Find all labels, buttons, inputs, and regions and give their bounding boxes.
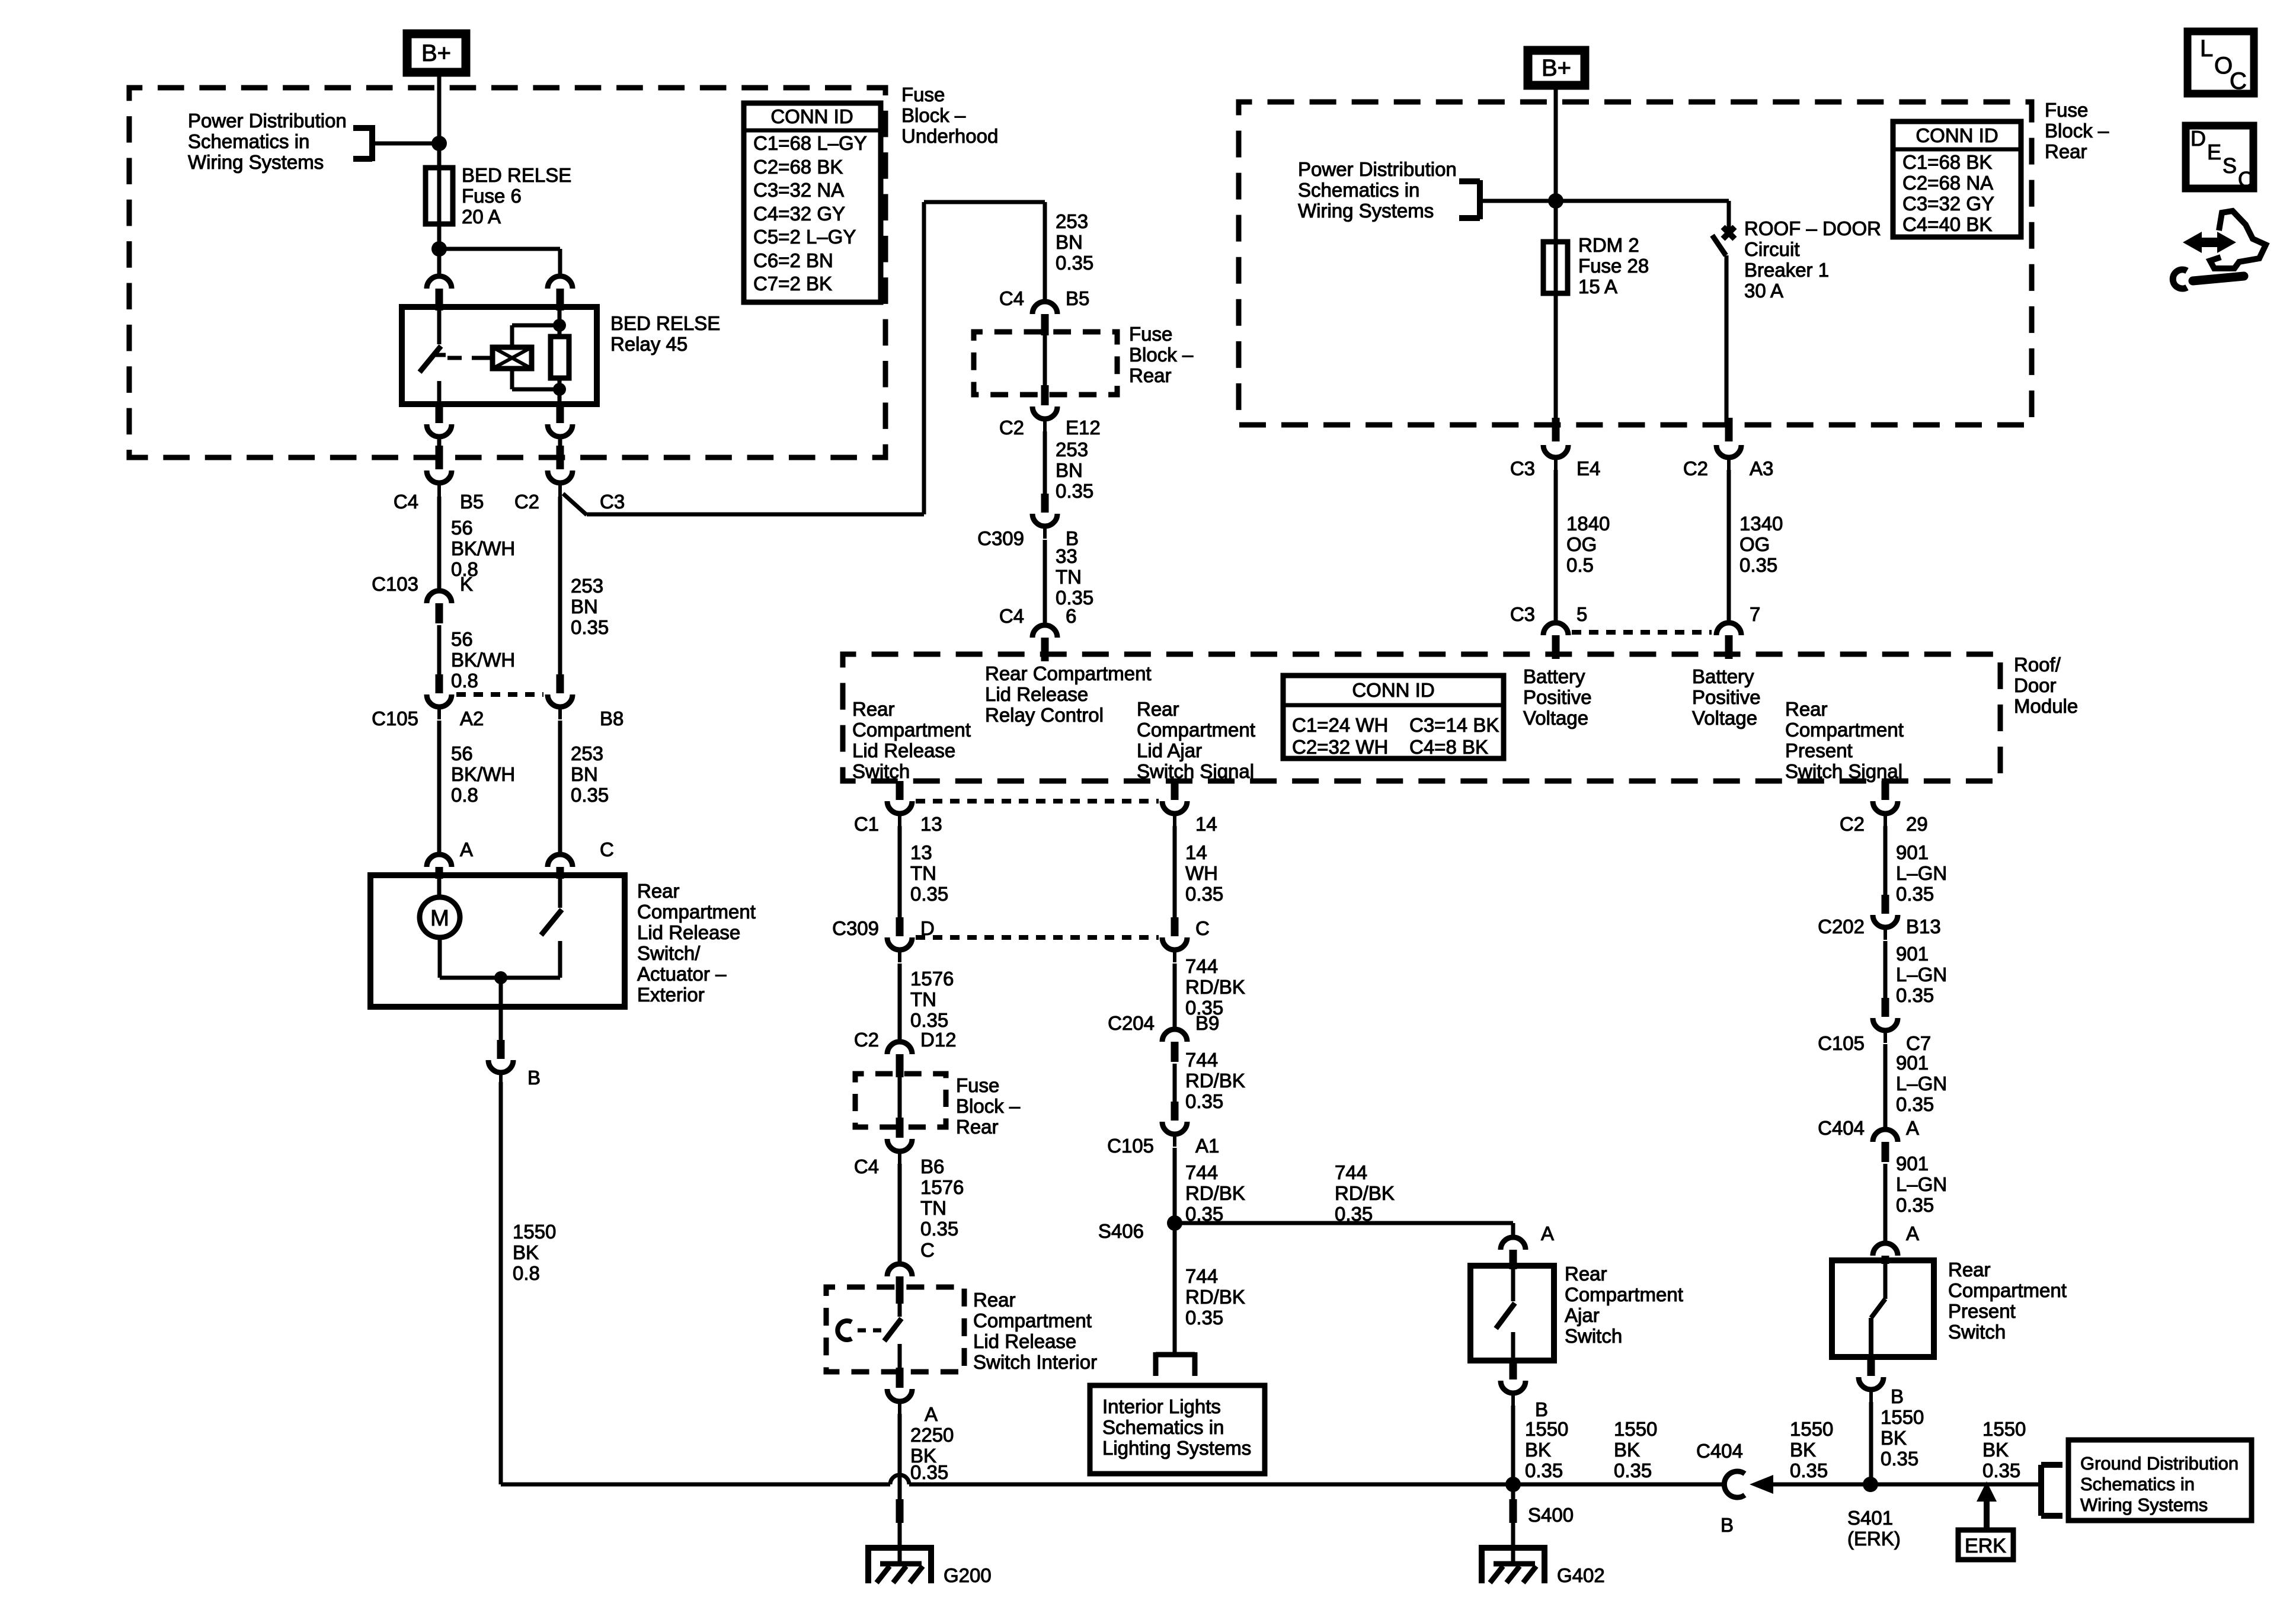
relay coil bottom rail	[512, 388, 559, 392]
label circuit 253 BN 0.35 (4)	[1056, 438, 1093, 502]
wire ajar to S400	[1511, 1406, 1515, 1484]
svg-text:Compartment: Compartment	[973, 1310, 1092, 1331]
power symbol B+ (battery feed, underhood)	[407, 34, 466, 72]
wire S406 to ajar switch	[1175, 1223, 1513, 1235]
label circuit 56 BK/WH 0.8 (2)	[451, 628, 515, 692]
svg-text:C2: C2	[854, 1029, 879, 1051]
svg-text:1340: 1340	[1739, 513, 1783, 534]
svg-text:C3=32 GY: C3=32 GY	[1902, 193, 1994, 215]
label circuit 2250 BK 0.35	[910, 1424, 954, 1483]
connector relay pin 1 (switch)	[427, 276, 452, 311]
svg-text:D: D	[920, 917, 935, 939]
label C4 (B6)	[854, 1156, 879, 1177]
wire 253 BN routing to fuse block rear	[587, 202, 1045, 514]
connector C105 terminal B8 side	[548, 497, 573, 719]
svg-text:B5: B5	[1066, 287, 1089, 309]
svg-text:1550: 1550	[513, 1221, 556, 1243]
wire 253 BN drop	[1043, 202, 1047, 300]
svg-text:CONN ID: CONN ID	[770, 105, 853, 127]
svg-text:TN: TN	[1056, 566, 1082, 588]
connector relay output (coil side)	[548, 404, 573, 449]
wire 14 WH segment	[1173, 826, 1177, 917]
wire 1576 TN segment	[898, 964, 902, 1040]
dashed box Fuse Block - Rear (small 2)	[855, 1074, 946, 1127]
label B (C404 bus)	[1721, 1514, 1734, 1536]
svg-text:(ERK): (ERK)	[1847, 1528, 1901, 1550]
connector B (present switch)	[1859, 1357, 1884, 1403]
connector C2 terminal D12	[887, 1042, 912, 1077]
svg-text:56: 56	[451, 628, 473, 650]
label circuit 901 L-GN 0.35 (2)	[1896, 943, 1947, 1006]
svg-text:BK: BK	[1790, 1439, 1816, 1461]
svg-text:C7: C7	[1906, 1032, 1931, 1054]
label C4 (module)	[999, 605, 1024, 627]
label C2 (A3)	[1683, 457, 1708, 479]
svg-text:Rear: Rear	[1565, 1263, 1607, 1285]
svg-text:BK: BK	[1982, 1439, 2009, 1461]
svg-text:0.35: 0.35	[1335, 1203, 1373, 1225]
label circuit 744 RD/BK 0.35 (branch)	[1335, 1161, 1395, 1225]
connector C2 terminal 29	[1873, 781, 1898, 826]
label C105 (A1)	[1107, 1135, 1154, 1157]
label Rear Compartment Present Switch	[1948, 1259, 2067, 1343]
svg-text:RD/BK: RD/BK	[1185, 976, 1245, 998]
interior switch contact	[837, 1287, 901, 1372]
svg-text:S401: S401	[1847, 1507, 1893, 1529]
svg-text:29: 29	[1906, 813, 1928, 835]
svg-text:BN: BN	[571, 763, 598, 785]
svg-text:1576: 1576	[910, 968, 954, 990]
wire 901 L-GN segment	[1884, 826, 1888, 895]
svg-text:S400: S400	[1528, 1504, 1574, 1526]
label circuit 744 RD/BK 0.35 (3)	[1185, 1161, 1245, 1225]
table CONN ID (fuse block underhood)	[744, 103, 881, 302]
node coil/resistor bottom	[553, 383, 566, 396]
svg-text:Fuse: Fuse	[956, 1074, 999, 1096]
label C3 (E4)	[1510, 457, 1535, 479]
label E4	[1576, 457, 1600, 479]
connector C1 terminal 13	[887, 781, 912, 826]
svg-text:0.35: 0.35	[910, 1461, 948, 1483]
off-page bracket to ground distribution	[2041, 1465, 2062, 1516]
svg-text:Lid Release: Lid Release	[985, 683, 1088, 705]
svg-text:C2=68 NA: C2=68 NA	[1902, 172, 1993, 194]
svg-text:Relay Control: Relay Control	[985, 704, 1104, 726]
svg-text:0.35: 0.35	[1185, 883, 1223, 905]
wire C3 diagonal branch	[563, 494, 587, 515]
table CONN ID (fuse block rear)	[1893, 121, 2021, 237]
label C2 (D12)	[854, 1029, 879, 1051]
label circuit 744 RD/BK 0.35 (1)	[1185, 955, 1245, 1019]
svg-text:L–GN: L–GN	[1896, 862, 1947, 884]
label C (C309)	[1195, 917, 1210, 939]
wire node to fuse 28	[1554, 201, 1558, 242]
svg-text:C3: C3	[1510, 603, 1535, 625]
svg-text:C3=14 BK: C3=14 BK	[1409, 714, 1499, 736]
dashed box Fuse Block - Rear (big)	[1239, 102, 2032, 425]
label C309 (B)	[977, 527, 1024, 549]
label C204	[1108, 1012, 1155, 1034]
wire 1576 TN segment 2	[898, 1164, 902, 1262]
svg-text:Rear: Rear	[852, 698, 895, 720]
svg-text:Switch: Switch	[1948, 1321, 2006, 1343]
wire actuator output	[499, 978, 503, 1007]
svg-text:BK/WH: BK/WH	[451, 537, 515, 559]
svg-text:BN: BN	[1056, 459, 1083, 481]
svg-text:C2: C2	[1683, 457, 1708, 479]
connector C2 terminal A3	[1716, 418, 1741, 471]
label C3 (5)	[1510, 603, 1535, 625]
svg-text:Wiring Systems: Wiring Systems	[188, 151, 324, 173]
connector C2 terminal E12	[1032, 385, 1057, 433]
label Rear Compartment Lid Release Switch/Actuator - Exterior	[637, 880, 756, 1006]
label S400	[1528, 1504, 1574, 1526]
svg-text:L–GN: L–GN	[1896, 1173, 1947, 1195]
svg-text:C3: C3	[1510, 457, 1535, 479]
connector C103 terminal K	[427, 591, 452, 623]
label 29	[1906, 813, 1928, 835]
connector C309 terminal B	[1032, 494, 1057, 539]
label BED RELSE Fuse 6 20 A	[462, 164, 571, 228]
svg-text:0.35: 0.35	[910, 883, 948, 905]
svg-text:C202: C202	[1818, 916, 1865, 937]
connector C4 terminal B6	[887, 1118, 912, 1165]
svg-text:B: B	[1535, 1398, 1548, 1420]
svg-text:C4: C4	[854, 1156, 879, 1177]
label 5	[1576, 603, 1587, 625]
svg-text:Positive: Positive	[1523, 686, 1592, 708]
label circuit 1576 TN 0.35 C	[920, 1176, 964, 1261]
svg-text:Schematics in: Schematics in	[1298, 179, 1419, 201]
actuator switch contact	[541, 879, 562, 978]
svg-text:0.8: 0.8	[451, 670, 478, 692]
label circuit 33 TN 0.35	[1056, 545, 1093, 609]
label 6	[1066, 605, 1076, 627]
svg-text:C2: C2	[514, 491, 539, 513]
motor M symbol	[420, 879, 460, 978]
label B5 (rear)	[1066, 287, 1089, 309]
svg-text:Rear: Rear	[956, 1116, 999, 1138]
svg-text:0.35: 0.35	[910, 1009, 948, 1031]
relay coil (crossed box)	[485, 325, 532, 389]
svg-text:0.35: 0.35	[1739, 554, 1777, 576]
node junction rear feed	[1548, 193, 1563, 209]
label S406	[1098, 1220, 1144, 1242]
svg-text:BK: BK	[1881, 1427, 1907, 1449]
label K	[460, 573, 473, 595]
label circuit 14 WH 0.35	[1185, 841, 1223, 905]
wire present to S401	[1869, 1402, 1873, 1484]
svg-text:K: K	[460, 573, 473, 595]
svg-text:TN: TN	[910, 988, 936, 1010]
svg-text:Wiring Systems: Wiring Systems	[2080, 1494, 2208, 1515]
svg-text:Lid Release: Lid Release	[852, 740, 955, 761]
svg-text:Switch: Switch	[852, 760, 910, 782]
svg-text:Voltage: Voltage	[1692, 707, 1757, 729]
connector relay pin 2 (coil)	[548, 276, 573, 311]
svg-text:Fuse: Fuse	[2045, 99, 2088, 121]
svg-text:5: 5	[1576, 603, 1587, 625]
svg-text:WH: WH	[1185, 862, 1218, 884]
svg-text:0.35: 0.35	[1896, 883, 1934, 905]
svg-text:RD/BK: RD/BK	[1185, 1286, 1245, 1308]
label B5	[460, 491, 484, 513]
label C202	[1818, 916, 1865, 937]
wire 1550 BK 0.8 to ground bus	[499, 1082, 503, 1484]
svg-text:CONN ID: CONN ID	[1352, 679, 1434, 701]
svg-text:A1: A1	[1195, 1135, 1219, 1157]
label C309 (D)	[832, 917, 879, 939]
svg-text:BK/WH: BK/WH	[451, 763, 515, 785]
icon wrench	[2173, 270, 2244, 289]
svg-text:Present: Present	[1948, 1300, 2016, 1322]
svg-text:Rear: Rear	[973, 1289, 1016, 1311]
svg-text:253: 253	[571, 575, 603, 597]
svg-text:253: 253	[571, 742, 603, 764]
svg-text:Lid Release: Lid Release	[973, 1330, 1076, 1352]
svg-text:BK: BK	[513, 1241, 539, 1263]
svg-text:C309: C309	[832, 917, 879, 939]
label Rear Compartment Lid Release Switch Interior	[973, 1289, 1097, 1373]
wire to actuator pin C	[558, 721, 562, 853]
svg-text:Block –: Block –	[1129, 344, 1194, 366]
svg-text:1550: 1550	[1614, 1418, 1657, 1440]
svg-text:E: E	[2207, 140, 2221, 164]
svg-text:OG: OG	[1739, 533, 1770, 555]
label circuit 1550 BK 0.8	[513, 1221, 556, 1284]
svg-text:Compartment: Compartment	[1785, 719, 1904, 741]
ground G200	[866, 1517, 992, 1586]
svg-text:A: A	[925, 1403, 938, 1425]
label B (C309)	[1066, 527, 1079, 549]
connector C2 terminal 7 into module	[1716, 623, 1741, 659]
label C103	[372, 573, 418, 595]
svg-text:C404: C404	[1818, 1117, 1865, 1139]
svg-text:Lid Release: Lid Release	[637, 921, 740, 943]
svg-text:Ground Distribution: Ground Distribution	[2080, 1453, 2239, 1474]
svg-text:B8: B8	[600, 708, 623, 729]
connector C309 terminal C	[1162, 917, 1187, 962]
svg-text:Rear: Rear	[637, 880, 680, 902]
svg-text:C: C	[2238, 167, 2253, 191]
svg-text:1550: 1550	[1790, 1418, 1833, 1440]
node splice S401 (ERK)	[1863, 1477, 1878, 1492]
svg-text:Compartment: Compartment	[1565, 1283, 1683, 1305]
wire S406 down to interior lights	[1173, 1223, 1177, 1354]
svg-text:B+: B+	[1542, 55, 1571, 81]
wire 901 L-GN segment 3	[1884, 1044, 1888, 1129]
icon box DESC	[2186, 126, 2253, 191]
svg-text:Lid Ajar: Lid Ajar	[1137, 740, 1202, 761]
wire 13 TN segment	[898, 826, 902, 917]
svg-text:Fuse: Fuse	[901, 84, 945, 105]
ground G402	[1480, 1517, 1605, 1586]
label A (interior)	[925, 1403, 938, 1425]
svg-text:Switch/: Switch/	[637, 942, 701, 964]
wire bracket to node (rear)	[1480, 199, 1556, 203]
wire 33 TN segment	[1043, 540, 1047, 623]
svg-text:1550: 1550	[1525, 1418, 1568, 1440]
connector C3 terminal E4	[1543, 418, 1568, 471]
label circuit 253 BN 0.35 (left run)	[571, 575, 609, 638]
off-page reference Power Distribution Schematics (right)	[1298, 158, 1480, 222]
label pin C	[600, 838, 614, 860]
svg-text:Schematics in: Schematics in	[188, 130, 309, 152]
wire 901 L-GN segment 4	[1884, 1164, 1888, 1241]
svg-text:0.35: 0.35	[1614, 1459, 1652, 1481]
svg-text:A: A	[460, 838, 473, 860]
label Rear Compartment Lid Ajar Switch Signal	[1137, 698, 1255, 782]
svg-text:Battery: Battery	[1523, 665, 1585, 687]
svg-text:0.5: 0.5	[1566, 554, 1594, 576]
svg-text:C4: C4	[999, 605, 1024, 627]
svg-text:Rear Compartment: Rear Compartment	[985, 662, 1152, 684]
label C404 (bus)	[1696, 1440, 1743, 1462]
svg-text:BN: BN	[1056, 231, 1083, 253]
svg-text:6: 6	[1066, 605, 1076, 627]
svg-text:Positive: Positive	[1692, 686, 1761, 708]
relay resistor	[551, 307, 569, 404]
wire to actuator pin A	[437, 721, 442, 853]
svg-text:Wiring Systems: Wiring Systems	[1298, 200, 1434, 222]
svg-text:0.35: 0.35	[1881, 1448, 1918, 1470]
connector C105 terminal A2	[427, 674, 452, 719]
label circuit 901 L-GN 0.35 (4)	[1896, 1153, 1947, 1216]
svg-text:Switch Interior: Switch Interior	[973, 1351, 1097, 1373]
label circuit 901 L-GN 0.35 (1)	[1896, 841, 1947, 905]
svg-text:TN: TN	[920, 1197, 946, 1219]
svg-text:C105: C105	[1107, 1135, 1154, 1157]
svg-text:B5: B5	[460, 491, 484, 513]
wire ground bus (S401 to bracket)	[1870, 1483, 2040, 1487]
label circuit 56 BK/WH 0.8	[451, 517, 515, 580]
svg-text:Rear: Rear	[1137, 698, 1179, 720]
label pin B (actuator)	[527, 1067, 541, 1089]
svg-text:Rear: Rear	[2045, 140, 2087, 162]
label C2	[514, 491, 539, 513]
svg-text:Underhood: Underhood	[901, 125, 998, 147]
svg-text:Compartment: Compartment	[637, 901, 756, 923]
label C105	[372, 708, 418, 729]
connector C2 terminal C3	[548, 470, 573, 497]
node splice S406	[1167, 1215, 1182, 1231]
label C404 (A)	[1818, 1117, 1865, 1139]
svg-text:Circuit: Circuit	[1744, 238, 1800, 260]
connector actuator pin C	[548, 854, 573, 879]
svg-text:Power Distribution: Power Distribution	[188, 110, 347, 132]
box Rear Compartment Present Switch	[1832, 1260, 1934, 1357]
svg-text:Actuator –: Actuator –	[637, 963, 727, 985]
present switch contact	[1871, 1264, 1885, 1357]
svg-text:B13: B13	[1906, 916, 1941, 937]
off-page bracket to interior lights	[1156, 1352, 1195, 1376]
svg-text:RD/BK: RD/BK	[1185, 1070, 1245, 1092]
svg-text:901: 901	[1896, 841, 1929, 863]
label 13	[920, 813, 942, 835]
svg-text:0.35: 0.35	[1185, 1090, 1223, 1112]
svg-text:G402: G402	[1557, 1564, 1605, 1586]
label RDM 2 Fuse 28 15 A	[1578, 234, 1649, 297]
svg-text:901: 901	[1896, 1153, 1929, 1174]
node branch to relay coil	[431, 241, 447, 257]
label Rear Compartment Lid Release Switch	[852, 698, 971, 782]
label A (present)	[1906, 1222, 1919, 1244]
svg-text:C: C	[2230, 68, 2247, 94]
label Roof/Door Module	[2014, 654, 2078, 717]
svg-text:0.35: 0.35	[920, 1218, 958, 1240]
connector B (ajar switch)	[1501, 1361, 1526, 1407]
wire B+ rear down	[1554, 85, 1558, 201]
dashed box Fuse Block - Rear (small)	[974, 332, 1117, 395]
svg-text:1550: 1550	[1881, 1406, 1924, 1428]
label A3	[1750, 457, 1773, 479]
connector A into ajar switch	[1501, 1237, 1526, 1269]
svg-text:C4: C4	[394, 491, 418, 513]
svg-text:Breaker 1: Breaker 1	[1744, 259, 1829, 281]
wire S400 to ground G402	[1511, 1484, 1515, 1523]
relay BED RELSE Relay 45 box	[402, 307, 597, 404]
svg-text:1550: 1550	[1982, 1418, 2026, 1440]
svg-text:C2: C2	[999, 417, 1024, 438]
connector A (interior switch)	[887, 1368, 912, 1415]
svg-text:C3: C3	[600, 491, 625, 513]
label circuit 1550 BK 0.35 (bus mid)	[1790, 1418, 1833, 1481]
relay switch contact	[420, 307, 446, 404]
svg-text:13: 13	[920, 813, 942, 835]
svg-text:7: 7	[1750, 603, 1760, 625]
wire from power distribution bracket to node	[372, 142, 439, 146]
svg-text:0.35: 0.35	[1790, 1459, 1828, 1481]
svg-text:Power Distribution: Power Distribution	[1298, 158, 1457, 180]
svg-text:C: C	[1195, 917, 1210, 939]
wire 744 RD/BK segment 2	[1173, 1064, 1177, 1102]
label C2 (E12)	[999, 417, 1024, 438]
svg-text:744: 744	[1335, 1161, 1367, 1183]
node splice S400	[1505, 1477, 1521, 1492]
box Interior Lights Schematics in Lighting Systems	[1090, 1385, 1265, 1474]
label circuit 1550 BK 0.35 (bus right)	[1982, 1418, 2026, 1481]
wire hop over 2250 BK at G200 wire	[890, 1475, 909, 1484]
label Fuse Block - Rear (small)	[1129, 323, 1194, 386]
svg-text:744: 744	[1185, 1161, 1218, 1183]
label Fuse Block - Underhood	[901, 84, 998, 147]
svg-text:Roof/: Roof/	[2014, 654, 2061, 676]
svg-text:C: C	[600, 838, 614, 860]
connector C404 terminal A	[1873, 1129, 1898, 1162]
label S401 (ERK)	[1847, 1507, 1901, 1550]
svg-text:Door: Door	[2014, 674, 2057, 696]
label Fuse Block - Rear (top right)	[2045, 99, 2109, 162]
svg-text:744: 744	[1185, 955, 1218, 977]
label circuit 1840 OG 0.5	[1566, 513, 1610, 576]
svg-text:0.35: 0.35	[1896, 984, 1934, 1006]
svg-text:56: 56	[451, 517, 473, 539]
connector C4 terminal 6 into module	[1032, 625, 1057, 661]
connector C309 terminal D	[887, 917, 912, 962]
label C105 (C7)	[1818, 1032, 1865, 1054]
wire fuse to branch node	[437, 224, 442, 249]
svg-text:Compartment: Compartment	[852, 719, 971, 741]
label A (C404)	[1906, 1117, 1919, 1139]
dashed box Roof/Door Module	[843, 654, 2000, 781]
svg-text:S406: S406	[1098, 1220, 1144, 1242]
node junction at B+ feed	[431, 136, 447, 151]
svg-text:C4=32 GY: C4=32 GY	[753, 203, 845, 225]
svg-text:C7=2 BK: C7=2 BK	[753, 273, 832, 295]
svg-text:BK: BK	[1614, 1439, 1640, 1461]
svg-text:B: B	[527, 1067, 541, 1089]
svg-text:C6=2 BN: C6=2 BN	[753, 249, 833, 271]
